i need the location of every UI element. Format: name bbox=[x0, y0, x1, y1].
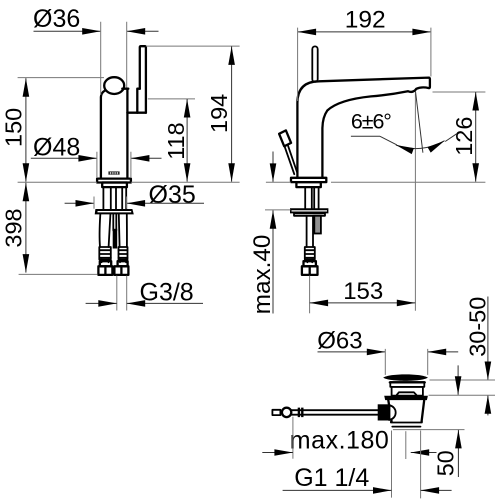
side view: side knob bbox=[279, 130, 297, 174]
mounting plane extension lines bbox=[18, 181, 240, 183]
svg-text:398: 398 bbox=[0, 208, 26, 247]
svg-text:150: 150 bbox=[0, 108, 26, 147]
svg-text:192: 192 bbox=[345, 7, 386, 34]
front view: pop-up rod bbox=[113, 215, 118, 249]
front view: base tier2 bbox=[102, 183, 127, 188]
dimension max.180 bbox=[262, 417, 436, 459]
side view: hose bbox=[305, 216, 315, 262]
svg-text:Ø48: Ø48 bbox=[33, 133, 80, 161]
front view: supply pipes bbox=[103, 187, 126, 209]
svg-text:G3/8: G3/8 bbox=[140, 279, 194, 307]
svg-text:Ø63: Ø63 bbox=[317, 327, 362, 354]
svg-text:194: 194 bbox=[206, 94, 232, 133]
dimension G3/8 bbox=[86, 276, 203, 311]
dimension 194 bbox=[146, 46, 240, 182]
front view: top cap ellipse bbox=[104, 77, 124, 94]
dimension 50 bbox=[393, 365, 465, 477]
dimension Ø35 bbox=[65, 181, 204, 209]
front view: body outline bbox=[101, 89, 128, 179]
dimension Ø48 bbox=[31, 133, 162, 178]
svg-text:50: 50 bbox=[433, 450, 459, 476]
dimension 126 bbox=[331, 92, 485, 182]
dimension 398 bbox=[0, 183, 97, 275]
dimension Ø63 bbox=[317, 327, 458, 375]
dimension 30-50 bbox=[429, 297, 496, 416]
svg-text:Ø35: Ø35 bbox=[149, 181, 196, 209]
side view: shank pipes bbox=[305, 187, 318, 208]
drain: rod socket bbox=[378, 404, 396, 420]
svg-text:153: 153 bbox=[343, 278, 383, 305]
svg-text:6±6°: 6±6° bbox=[351, 110, 392, 134]
front view: right G3/8 fitting bbox=[114, 261, 128, 275]
dimension 150 bbox=[0, 78, 104, 182]
front view: KEUCO logo bbox=[108, 171, 119, 174]
front view: right hose bbox=[119, 215, 128, 263]
side view: base flange bbox=[291, 178, 326, 182]
front view: base flange bbox=[97, 179, 131, 183]
drain: basin rim bar bbox=[384, 396, 428, 400]
svg-text:G1 1/4: G1 1/4 bbox=[294, 464, 369, 492]
dimension G1 1/4 bbox=[283, 431, 452, 499]
side view: base tier2 bbox=[296, 182, 320, 187]
front view: mounting escutcheon bbox=[95, 209, 134, 214]
side view: pop-up rod guide bbox=[314, 216, 321, 234]
dimension 192 bbox=[298, 7, 431, 101]
dimension 6 deg angle bbox=[351, 92, 457, 311]
svg-text:118: 118 bbox=[163, 122, 189, 159]
side view: body and spout outline bbox=[297, 78, 430, 178]
dimension 118 bbox=[148, 99, 195, 182]
drain: valve body bbox=[388, 400, 424, 427]
side view: mounting washer bbox=[290, 208, 328, 216]
dimension max.40 bbox=[249, 152, 291, 315]
svg-text:126: 126 bbox=[451, 117, 477, 156]
front view: handle lever bar bbox=[127, 46, 145, 113]
svg-text:max.40: max.40 bbox=[249, 235, 276, 315]
dimension 153 bbox=[310, 276, 416, 314]
side view: G3/8 fitting bbox=[302, 261, 318, 275]
svg-text:30-50: 30-50 bbox=[464, 297, 490, 357]
front view: left hose bbox=[99, 215, 111, 263]
drain: pop-up rod bbox=[272, 408, 377, 418]
front view: left G3/8 fitting bbox=[98, 261, 112, 275]
dimension Ø36 bbox=[33, 5, 159, 95]
side view: lever rod bbox=[312, 46, 317, 82]
drain: neck bbox=[390, 382, 425, 396]
svg-text:max.180: max.180 bbox=[290, 426, 389, 454]
svg-text:Ø36: Ø36 bbox=[33, 5, 80, 33]
drain: plug cap bbox=[383, 374, 428, 380]
